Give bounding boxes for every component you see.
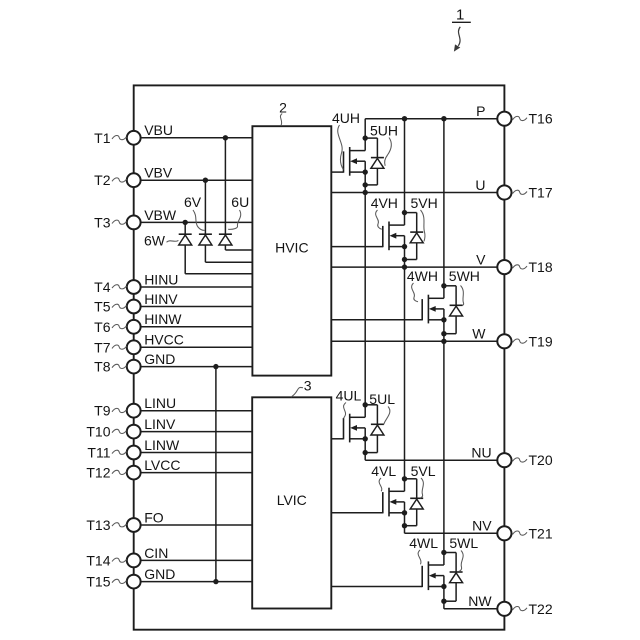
svg-text:NV: NV — [472, 518, 492, 534]
svg-text:GND: GND — [144, 566, 175, 582]
svg-text:HINU: HINU — [144, 271, 178, 287]
svg-text:LVIC: LVIC — [277, 492, 307, 508]
svg-text:P: P — [476, 103, 485, 119]
svg-text:6V: 6V — [184, 194, 202, 210]
svg-text:V: V — [476, 251, 486, 267]
svg-text:T5: T5 — [94, 299, 111, 315]
svg-text:T18: T18 — [529, 259, 553, 275]
svg-text:4VL: 4VL — [371, 463, 396, 479]
svg-text:LINV: LINV — [144, 416, 176, 432]
svg-text:LVCC: LVCC — [144, 457, 180, 473]
svg-text:1: 1 — [456, 7, 464, 24]
svg-text:NU: NU — [471, 445, 491, 461]
svg-text:5VL: 5VL — [411, 463, 436, 479]
svg-text:T1: T1 — [94, 130, 111, 146]
svg-text:3: 3 — [304, 377, 312, 393]
svg-text:FO: FO — [144, 509, 164, 525]
svg-text:T8: T8 — [94, 359, 111, 375]
svg-text:GND: GND — [144, 351, 175, 367]
svg-text:T10: T10 — [86, 424, 110, 440]
svg-text:6U: 6U — [231, 194, 249, 210]
svg-text:T6: T6 — [94, 319, 111, 335]
svg-text:HVIC: HVIC — [275, 239, 308, 255]
svg-text:4UH: 4UH — [332, 110, 360, 126]
svg-text:5WL: 5WL — [449, 535, 478, 551]
svg-text:T14: T14 — [86, 552, 110, 568]
svg-text:T19: T19 — [529, 333, 553, 349]
svg-text:T21: T21 — [529, 525, 553, 541]
svg-text:T7: T7 — [94, 339, 111, 355]
svg-text:VBU: VBU — [144, 122, 173, 138]
svg-text:T13: T13 — [86, 517, 110, 533]
svg-text:5UL: 5UL — [369, 391, 395, 407]
svg-text:5WH: 5WH — [449, 268, 480, 284]
svg-text:5UH: 5UH — [370, 122, 398, 138]
svg-text:T15: T15 — [86, 574, 110, 590]
svg-text:4WL: 4WL — [409, 535, 438, 551]
svg-text:T12: T12 — [86, 465, 110, 481]
svg-text:U: U — [475, 177, 485, 193]
svg-text:T16: T16 — [529, 111, 553, 127]
svg-text:6W: 6W — [144, 233, 166, 249]
svg-text:4WH: 4WH — [407, 268, 438, 284]
svg-text:HINW: HINW — [144, 311, 182, 327]
svg-text:T9: T9 — [94, 403, 111, 419]
svg-text:VBW: VBW — [144, 207, 177, 223]
svg-text:T4: T4 — [94, 279, 111, 295]
svg-text:T17: T17 — [529, 185, 553, 201]
svg-text:T11: T11 — [87, 445, 110, 461]
svg-text:NW: NW — [468, 593, 492, 609]
svg-text:T22: T22 — [529, 601, 553, 617]
svg-text:T3: T3 — [94, 214, 111, 230]
svg-text:CIN: CIN — [144, 545, 168, 561]
svg-text:LINU: LINU — [144, 395, 176, 411]
svg-text:HVCC: HVCC — [144, 332, 184, 348]
svg-text:5VH: 5VH — [411, 195, 438, 211]
svg-text:2: 2 — [279, 99, 287, 115]
svg-text:T2: T2 — [94, 172, 111, 188]
svg-text:LINW: LINW — [144, 437, 180, 453]
svg-text:4UL: 4UL — [336, 387, 362, 403]
svg-text:HINV: HINV — [144, 291, 178, 307]
svg-text:W: W — [472, 326, 486, 342]
svg-text:T20: T20 — [529, 452, 553, 468]
svg-text:VBV: VBV — [144, 165, 173, 181]
svg-text:4VH: 4VH — [371, 195, 398, 211]
